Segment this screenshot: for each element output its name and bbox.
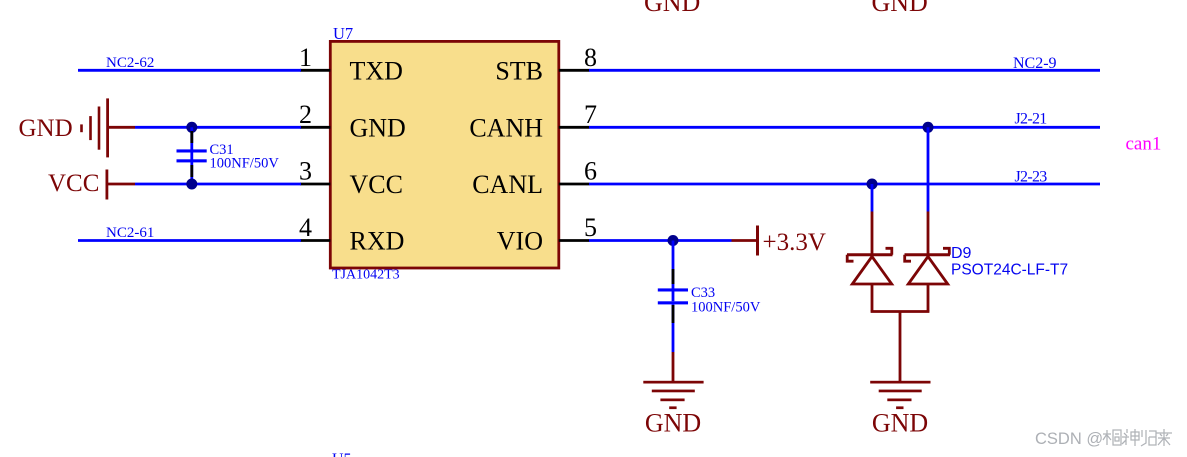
pin 3 stub: [300, 183, 330, 186]
junction node CANH diode tap: [923, 122, 934, 133]
svg-text:GND: GND: [350, 114, 406, 143]
wire pin 5 VIO to +3.3V: [589, 239, 732, 242]
C31 value label 100NF/50V: [210, 156, 280, 172]
capacitor C31: [177, 127, 207, 184]
net label NC2-61: [106, 225, 154, 241]
pin 7 stub: [559, 126, 590, 129]
svg-text:GND: GND: [644, 0, 700, 17]
net label can1: [1126, 134, 1162, 155]
pin 4 stub: [300, 239, 330, 242]
svg-text:TXD: TXD: [350, 57, 403, 86]
pin 5 stub: [559, 239, 590, 242]
op-amp U7 body TJA1042T3: [330, 41, 559, 268]
svg-text:STB: STB: [495, 57, 543, 86]
diode D9 right element: [905, 248, 951, 284]
net label NC2-9: [1013, 55, 1057, 72]
svg-text:RXD: RXD: [350, 227, 405, 256]
ground symbol below C33: [643, 381, 703, 409]
power label GND top-left net: [644, 0, 700, 17]
wire pin 8 to net NC2-9: [589, 69, 1100, 72]
svg-text:3: 3: [299, 157, 312, 186]
wire CANH junction down to D9 right: [927, 127, 930, 254]
U7 designator label: [333, 24, 353, 43]
pin label GND: [350, 114, 406, 143]
C31 designator label: [210, 142, 234, 158]
svg-text:GND: GND: [872, 0, 928, 17]
diode D9 left element: [847, 248, 893, 284]
pin number 7: [584, 100, 597, 129]
pin number 1: [299, 43, 312, 72]
U5 designator label bottom edge: [332, 451, 352, 457]
svg-text:VCC: VCC: [350, 170, 403, 199]
svg-text:5: 5: [584, 213, 597, 242]
net label NC2-62: [106, 55, 154, 71]
wire net NC2-62 to pin 1: [78, 69, 301, 72]
watermark glyph gui: [1141, 430, 1156, 446]
wire D9 anodes to ground: [871, 284, 930, 381]
pin label CANH: [469, 114, 543, 143]
ground symbol left horizontal: [80, 98, 135, 157]
net label J2-21: [1015, 111, 1048, 128]
svg-text:J2-21: J2-21: [1015, 111, 1048, 128]
U7 value label TJA1042T3: [332, 268, 400, 283]
svg-text:TJA1042T3: TJA1042T3: [332, 268, 400, 283]
power symbol VCC bar: [106, 170, 136, 200]
svg-text:CANH: CANH: [469, 114, 543, 143]
power label GND below D9: [872, 409, 928, 438]
power label GND left: [19, 115, 73, 142]
pin number 6: [584, 157, 597, 186]
svg-text:GND: GND: [19, 115, 73, 142]
svg-text:D9: D9: [951, 245, 972, 262]
junction node CANL diode tap: [867, 179, 878, 190]
C33 value label 100NF/50V: [691, 300, 761, 316]
pin 1 stub: [300, 69, 330, 72]
wire C33 to ground: [672, 352, 675, 381]
pin number 8: [584, 43, 597, 72]
svg-text:100NF/50V: 100NF/50V: [691, 300, 761, 316]
wire CANL junction down to D9 left: [871, 184, 874, 254]
watermark glyph tong: [1103, 430, 1121, 445]
svg-text:can1: can1: [1126, 134, 1162, 155]
pin label CANL: [472, 170, 543, 199]
svg-text:CANL: CANL: [472, 170, 543, 199]
svg-text:J2-23: J2-23: [1015, 169, 1048, 186]
svg-text:2: 2: [299, 100, 312, 129]
power label GND top-right net: [872, 0, 928, 17]
pin 6 stub: [559, 183, 590, 186]
capacitor C33: [658, 241, 688, 353]
svg-text:GND: GND: [872, 409, 928, 438]
pin 8 stub: [559, 69, 590, 72]
wire pin 6 CANL to net J2-23: [589, 183, 1100, 186]
pin number 4: [299, 213, 312, 242]
svg-text:VIO: VIO: [497, 227, 543, 256]
power symbol +3.3V bar: [732, 226, 760, 256]
C33 designator label: [691, 285, 715, 301]
svg-text:1: 1: [299, 43, 312, 72]
junction node C31 top: [186, 122, 197, 133]
svg-text:4: 4: [299, 213, 312, 242]
svg-text:GND: GND: [645, 409, 701, 438]
svg-text:U5: U5: [332, 451, 352, 457]
pin label VIO: [497, 227, 543, 256]
net label J2-23: [1015, 169, 1048, 186]
svg-text:VCC: VCC: [48, 170, 99, 197]
pin 2 stub: [300, 126, 330, 129]
svg-text:PSOT24C-LF-T7: PSOT24C-LF-T7: [951, 262, 1068, 279]
svg-text:7: 7: [584, 100, 597, 129]
power label VCC: [48, 170, 99, 197]
watermark glyph lai: [1156, 429, 1172, 446]
watermark CSDN: [1035, 430, 1103, 448]
svg-text:8: 8: [584, 43, 597, 72]
wire VCC net to pin 3: [135, 183, 301, 186]
svg-text:NC2-62: NC2-62: [106, 55, 154, 71]
pin number 5: [584, 213, 597, 242]
svg-text:6: 6: [584, 157, 597, 186]
wire net NC2-61 to pin 4: [78, 239, 301, 242]
svg-text:NC2-9: NC2-9: [1013, 55, 1057, 72]
ground symbol below D9: [870, 381, 930, 409]
pin label TXD: [350, 57, 403, 86]
wire pin 7 CANH to net J2-21: [589, 126, 1100, 129]
svg-text:U7: U7: [333, 24, 353, 43]
junction node C33 top: [668, 235, 679, 246]
svg-text:100NF/50V: 100NF/50V: [210, 156, 280, 172]
junction node C31 bottom: [186, 179, 197, 190]
svg-text:NC2-61: NC2-61: [106, 225, 154, 241]
pin label VCC: [350, 170, 403, 199]
power label GND below C33: [645, 409, 701, 438]
pin label RXD: [350, 227, 405, 256]
D9 designator label: [951, 245, 972, 262]
pin number 2: [299, 100, 312, 129]
pin number 3: [299, 157, 312, 186]
pin label STB: [495, 57, 543, 86]
power label +3.3V: [763, 229, 826, 256]
svg-text:+3.3V: +3.3V: [763, 229, 826, 256]
svg-text:CSDN @: CSDN @: [1035, 430, 1103, 448]
watermark glyph shen: [1122, 429, 1139, 446]
D9 value label PSOT24C-LF-T7: [951, 262, 1068, 279]
wire GND net to pin 2: [135, 126, 301, 129]
